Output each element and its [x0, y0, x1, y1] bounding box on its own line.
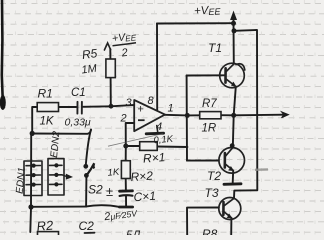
- wire T2 base: [187, 160, 219, 162]
- label +VEE/2: [111, 30, 137, 59]
- svg-text:R×1: R×1: [143, 150, 166, 166]
- svg-text:R8: R8: [202, 227, 218, 235]
- wire connector box outline: [31, 134, 86, 207]
- transistor T1: [208, 41, 245, 88]
- wire R5 bottom lead: [110, 78, 112, 107]
- wire output line to arrow: [234, 114, 284, 117]
- wire node B down to RX2: [125, 146, 127, 161]
- svg-text:+VEE: +VEE: [194, 4, 222, 18]
- svg-text:±: ±: [106, 184, 113, 199]
- wire T3 emitter to bottom edge: [230, 218, 232, 235]
- +VEE terminal blob: [231, 12, 237, 20]
- junction dot node B: [123, 144, 128, 149]
- junction dot rail right: [232, 28, 237, 33]
- capacitor CX1: [106, 184, 156, 204]
- resistor R5: [81, 46, 115, 77]
- wire CX1 bottom lead: [125, 196, 127, 206]
- switch S2: [83, 163, 103, 196]
- svg-text:8: 8: [148, 95, 155, 107]
- wire +VEE rail right to T3 collector column: [234, 30, 257, 198]
- connector pin row 2: [26, 174, 62, 176]
- svg-text:T3: T3: [205, 186, 219, 200]
- wire R7 to T1 emitter node: [221, 114, 234, 116]
- svg-text:1: 1: [168, 102, 174, 114]
- wire T1 emitter down to output node: [234, 87, 236, 116]
- capacitor C2 (cut at bottom): [79, 219, 95, 233]
- transistor T2: [207, 148, 245, 184]
- capacitor C1: [65, 87, 91, 129]
- wire RX2 to CX1: [125, 179, 127, 191]
- wire node A to op-amp pin 3: [111, 105, 134, 106]
- svg-text:1M: 1M: [81, 63, 98, 77]
- junction dot T1 emitter node: [231, 113, 236, 118]
- connector block EDN2: [48, 159, 64, 195]
- wire node B to RX1: [126, 145, 140, 147]
- wire op-amp output pin 1: [165, 114, 188, 117]
- paper smudge right: [255, 168, 268, 171]
- wire S2 upper lead: [86, 130, 91, 164]
- connector pin dots: [31, 163, 58, 186]
- wire R1 left lead down to connector: [32, 107, 37, 132]
- svg-text:+: +: [137, 104, 144, 116]
- resistor RX2: [107, 161, 154, 184]
- wire T1 base column down through output node to T2 base corner: [186, 76, 188, 161]
- svg-text:1R: 1R: [202, 123, 217, 135]
- transistor T3: [205, 186, 241, 220]
- ground bar under CX1: [119, 206, 132, 209]
- wire ground rail to CX1: [86, 205, 120, 207]
- wire +VEE rail left: [157, 22, 234, 24]
- svg-text:0,1K: 0,1K: [153, 134, 174, 147]
- wire op-amp pin 8 to +VEE rail: [156, 24, 158, 111]
- node A junction dot: [109, 104, 114, 109]
- wire op-amp pin 2: [126, 123, 135, 146]
- op-amp pin 4 lead: [157, 126, 158, 133]
- wire connector box top edge: [31, 130, 91, 134]
- svg-text:R7: R7: [202, 98, 217, 110]
- svg-text:C2: C2: [79, 219, 95, 233]
- op-amp U1: [120, 95, 174, 133]
- wire C1 to node A: [82, 105, 111, 108]
- junction dot connector bottom: [28, 204, 33, 209]
- junction dot connector top: [30, 131, 35, 136]
- svg-text:R×2: R×2: [130, 169, 154, 185]
- svg-text:1K: 1K: [107, 167, 120, 179]
- resistor R2 (cut at bottom): [36, 217, 59, 240]
- connector EDN1/EDN2: [24, 159, 64, 196]
- resistor R7: [200, 98, 221, 135]
- ground bar T2 emitter: [224, 182, 241, 185]
- junction dot output node: [185, 113, 190, 118]
- svg-text:C1: C1: [71, 87, 86, 99]
- wire T1 base: [187, 74, 225, 76]
- wire R1 to C1: [59, 106, 78, 108]
- junction dot +VEE rail: [231, 21, 236, 26]
- junction dot T2 collector: [230, 143, 235, 148]
- svg-text:1K: 1K: [40, 116, 55, 128]
- svg-text:R5: R5: [81, 46, 98, 62]
- scan edge artifact left: [0, 0, 3, 96]
- svg-text:0,33μ: 0,33μ: [65, 117, 91, 129]
- svg-text:R1: R1: [38, 87, 53, 101]
- output arrowhead: [282, 112, 289, 118]
- ground bar at pin 4: [146, 132, 163, 135]
- svg-text:T1: T1: [208, 41, 222, 55]
- connector pin row 1: [26, 164, 62, 166]
- resistor R1: [37, 87, 58, 128]
- resistor RX1: [140, 134, 174, 166]
- wire RX1 right lead to T1 base column: [157, 146, 187, 149]
- svg-text:C×1: C×1: [133, 189, 156, 205]
- connector pin row 3: [26, 183, 62, 185]
- svg-text:R2: R2: [36, 217, 55, 233]
- connector middle row arrow: [62, 175, 66, 177]
- connector block EDN1: [24, 161, 42, 196]
- svg-text:2: 2: [120, 112, 127, 124]
- supply arrow above R5: [104, 43, 110, 50]
- wire S2 lower lead to box bottom: [85, 178, 87, 207]
- wire +VEE terminal stem: [233, 18, 235, 23]
- stray pencil stroke: [108, 134, 163, 147]
- svg-text:3: 3: [126, 97, 133, 109]
- wire R2 down from connector: [29, 208, 32, 232]
- wire T2 emitter to ground: [232, 171, 235, 183]
- svg-text:EDN2: EDN2: [49, 130, 62, 158]
- svg-text:5Д: 5Д: [126, 230, 141, 235]
- wire T3 base from bottom edge column: [187, 208, 219, 236]
- svg-text:S2: S2: [88, 183, 103, 197]
- wire R5 top lead: [109, 49, 111, 59]
- svg-text:EDN1: EDN1: [15, 167, 28, 195]
- wire output node to R7: [187, 114, 199, 116]
- wire T1 collector: [233, 23, 235, 64]
- svg-text:T2: T2: [207, 169, 221, 183]
- wire T2 collector from output node: [232, 115, 235, 147]
